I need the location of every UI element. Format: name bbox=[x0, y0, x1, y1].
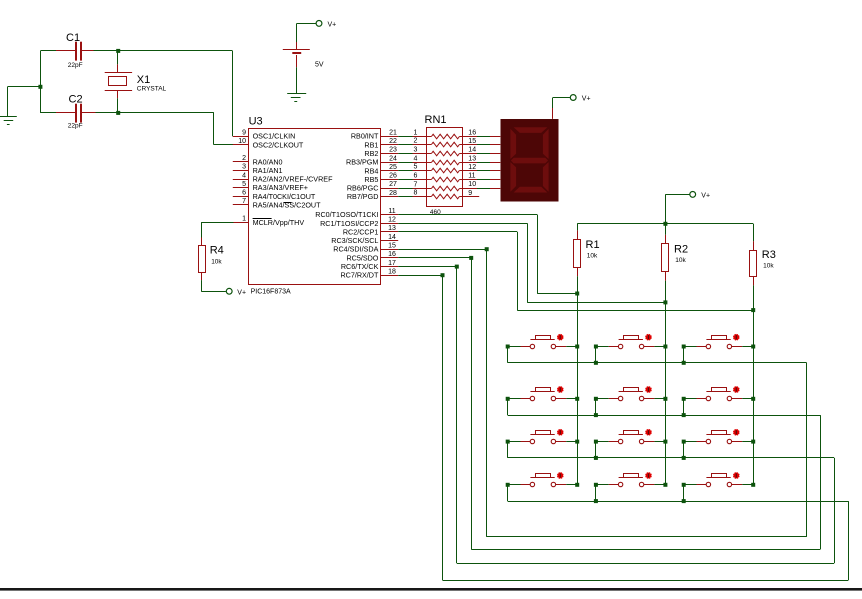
wire button row2 col2 right bbox=[654, 398, 665, 400]
resistor network RN1 value 460 bbox=[425, 114, 463, 216]
wire battery top bbox=[297, 23, 317, 42]
display lead pin 14 bbox=[490, 153, 500, 155]
capacitor C1 bbox=[56, 32, 94, 69]
pin 26 RB5 bbox=[364, 173, 398, 184]
svg-text:V+: V+ bbox=[237, 289, 246, 296]
svg-text:RB3/PGM: RB3/PGM bbox=[346, 158, 378, 167]
wire RN1 pin 12 to display bbox=[477, 170, 490, 172]
push button row1 col1 bbox=[521, 334, 567, 349]
wire C1 to OSC1 bbox=[94, 50, 233, 52]
wire V+ rail bbox=[577, 223, 753, 225]
svg-text:R4: R4 bbox=[210, 245, 224, 257]
svg-text:14: 14 bbox=[468, 147, 476, 154]
wire RC0 to column 1 bbox=[398, 215, 577, 294]
battery BT1 5V bbox=[283, 42, 324, 69]
junction R3 bottom bbox=[751, 308, 755, 312]
pin 24 RB3/PGM bbox=[346, 155, 398, 166]
wire button row2 col1 right bbox=[566, 398, 577, 400]
wire RC5 run bbox=[398, 258, 820, 550]
svg-text:R2: R2 bbox=[674, 243, 688, 255]
svg-text:10k: 10k bbox=[675, 257, 686, 264]
wire R4 to V+ bbox=[201, 280, 226, 291]
wire C2 left lead bbox=[40, 112, 56, 114]
wire RC1 to column 2 bbox=[398, 223, 665, 302]
pin 22 RB1 bbox=[364, 138, 398, 149]
wire X1 top lead bbox=[117, 51, 119, 64]
wire button row4 col1 left bbox=[508, 485, 521, 502]
wire rail to R2 bbox=[665, 224, 667, 235]
op-amp U3 body (PIC16F873A) bbox=[249, 116, 381, 296]
wire pin 21 to RN1 pin 1 bbox=[398, 136, 412, 138]
pin 12 RC1/T1OSI/CCP2 bbox=[320, 217, 398, 228]
resistor R1 10k bbox=[574, 230, 600, 276]
junction row 1 col3 drop bbox=[682, 361, 686, 365]
svg-text:10: 10 bbox=[238, 138, 246, 145]
crystal X1 bbox=[105, 64, 167, 98]
svg-text:27: 27 bbox=[389, 181, 397, 188]
wire button row4 col3 left bbox=[684, 485, 697, 502]
svg-text:RC2/CCP1: RC2/CCP1 bbox=[343, 227, 379, 236]
svg-text:10k: 10k bbox=[211, 258, 222, 265]
wire pin 28 to RN1 pin 8 bbox=[398, 196, 412, 198]
junction button row2 col3 L bbox=[682, 397, 686, 401]
display lead pin 12 bbox=[490, 170, 500, 172]
junction button row2 col2 R bbox=[663, 397, 667, 401]
junction button row3 col2 L bbox=[594, 440, 598, 444]
wire button row1 col1 right bbox=[566, 346, 577, 348]
power terminal V+ (battery) bbox=[316, 21, 336, 29]
svg-text:8: 8 bbox=[414, 190, 418, 197]
svg-text:12: 12 bbox=[468, 164, 476, 171]
push button row4 col2 bbox=[609, 472, 655, 486]
pin 14 RC3/SCK/SCL bbox=[331, 234, 398, 245]
junction RC7 corner bbox=[441, 273, 445, 277]
svg-text:26: 26 bbox=[389, 173, 397, 180]
wire keypad row 4 bbox=[508, 501, 849, 503]
wire button row1 col3 left bbox=[684, 347, 697, 363]
pin 4 RA2/AN2/VREF-/CVREF bbox=[233, 172, 333, 183]
wire button row3 col2 right bbox=[654, 441, 665, 443]
RN1 element 1 zigzag bbox=[414, 130, 463, 139]
wire RN1 pin 11 to display bbox=[477, 179, 490, 181]
wire button row4 col2 right bbox=[654, 484, 665, 486]
wire button row3 col3 left bbox=[684, 442, 697, 458]
wire button row4 col2 left bbox=[596, 485, 609, 502]
power terminal V+ (R4) bbox=[226, 288, 246, 296]
svg-text:14: 14 bbox=[388, 234, 396, 241]
svg-text:12: 12 bbox=[388, 217, 396, 224]
wire button row3 col1 right bbox=[566, 441, 577, 443]
svg-text:RB1: RB1 bbox=[364, 140, 378, 149]
svg-text:6: 6 bbox=[414, 173, 418, 180]
pin 21 RB0/INT bbox=[351, 129, 398, 140]
push button row1 col2 bbox=[609, 334, 655, 349]
svg-text:1: 1 bbox=[242, 216, 246, 223]
wire button row1 col1 left bbox=[508, 347, 521, 363]
wire RC7 run bbox=[398, 275, 848, 580]
pin 25 RB4 bbox=[364, 164, 398, 175]
pin 5 RA3/AN3/VREF+ bbox=[233, 181, 308, 192]
pin 3 RA1/AN1 bbox=[233, 164, 283, 175]
wire R1 to column bbox=[577, 276, 579, 293]
junction RC5 corner bbox=[469, 256, 473, 260]
svg-text:2: 2 bbox=[242, 155, 246, 162]
svg-text:1: 1 bbox=[414, 130, 418, 137]
svg-text:13: 13 bbox=[388, 225, 396, 232]
wire keypad row 1 bbox=[508, 362, 807, 364]
svg-text:X1: X1 bbox=[137, 74, 150, 86]
junction row 4 col2 drop bbox=[594, 499, 598, 503]
pin 23 RB2 bbox=[364, 147, 398, 158]
junction button row1 col3 R bbox=[751, 345, 755, 349]
RN1 right stub pin 10 bbox=[463, 181, 477, 188]
wire C1-C2 left vertical bbox=[40, 51, 42, 113]
RN1 right stub pin 14 bbox=[463, 147, 477, 154]
junction C2/X1 bottom bbox=[116, 111, 120, 115]
junction button row4 col3 R bbox=[751, 483, 755, 487]
wire button row3 col2 left bbox=[596, 442, 609, 458]
wire battery to ground bbox=[296, 67, 298, 93]
junction row 4 col3 drop bbox=[682, 499, 686, 503]
svg-text:C1: C1 bbox=[66, 32, 80, 44]
svg-text:RC4/SDI/SDA: RC4/SDI/SDA bbox=[333, 245, 378, 254]
svg-text:CRYSTAL: CRYSTAL bbox=[137, 85, 167, 92]
wire MCLR to R4 bbox=[201, 222, 233, 237]
svg-text:5: 5 bbox=[242, 181, 246, 188]
RN1 right stub pin 16 bbox=[463, 129, 477, 136]
RN1 element 8 zigzag bbox=[414, 190, 463, 199]
junction row 2 col3 drop bbox=[682, 413, 686, 417]
RN1 left stub 6 bbox=[413, 179, 427, 181]
junction button row4 col3 L bbox=[682, 483, 686, 487]
svg-text:3: 3 bbox=[242, 164, 246, 171]
junction button row1 col2 R bbox=[663, 345, 667, 349]
junction ground/left vertical bbox=[38, 85, 42, 89]
RN1 left stub 5 bbox=[413, 170, 427, 172]
push button row1 col3 bbox=[697, 334, 743, 349]
svg-text:4: 4 bbox=[242, 172, 246, 179]
junction button row1 col1 L bbox=[506, 345, 510, 349]
wire keypad row 2 bbox=[508, 415, 821, 417]
pin 13 RC2/CCP1 bbox=[343, 225, 398, 236]
display lead pin 10 bbox=[490, 188, 500, 190]
junction button row1 col3 L bbox=[682, 345, 686, 349]
wire column 3 vertical bbox=[753, 310, 755, 485]
wire button row2 col2 left bbox=[596, 399, 609, 416]
pin 2 RA0/AN0 bbox=[233, 155, 283, 166]
pin 9 OSC1/CLKIN bbox=[233, 129, 296, 140]
wire button row2 col1 left bbox=[508, 399, 521, 416]
wire RC2 to column 3 bbox=[398, 232, 753, 311]
wire button row1 col2 right bbox=[654, 346, 665, 348]
pin 6 RA4/T0CKI/C1OUT bbox=[233, 190, 316, 201]
junction button row4 col2 R bbox=[663, 483, 667, 487]
wire column 2 vertical bbox=[665, 302, 667, 484]
svg-text:25: 25 bbox=[389, 164, 397, 171]
svg-text:18: 18 bbox=[388, 268, 396, 275]
push button row3 col1 bbox=[521, 429, 567, 443]
RN1 right stub pin 12 bbox=[463, 164, 477, 171]
ground bbox=[0, 87, 17, 125]
svg-text:6: 6 bbox=[242, 190, 246, 197]
wire button row2 col3 left bbox=[684, 399, 697, 416]
push button row3 col3 bbox=[697, 429, 743, 443]
RN1 left stub 3 bbox=[413, 153, 427, 155]
wire display V+ bbox=[553, 98, 571, 109]
wire pin 24 to RN1 pin 4 bbox=[398, 162, 412, 164]
svg-text:22: 22 bbox=[389, 138, 397, 145]
svg-text:23: 23 bbox=[389, 147, 397, 154]
wire button row4 col1 right bbox=[566, 484, 577, 486]
pin 16 RC5/SDO bbox=[346, 251, 398, 262]
svg-text:R1: R1 bbox=[586, 239, 600, 251]
wire keypad row 3 bbox=[508, 457, 834, 459]
svg-text:16: 16 bbox=[388, 251, 396, 258]
wire button row1 col2 left bbox=[596, 347, 609, 363]
RN1 left stub 2 bbox=[413, 144, 427, 146]
wire ground branch bbox=[8, 86, 41, 88]
junction row 1 col2 drop bbox=[594, 361, 598, 365]
junction RC6 corner bbox=[455, 265, 459, 269]
wire column 1 vertical bbox=[577, 294, 579, 485]
capacitor C2 bbox=[56, 94, 96, 130]
RN1 right stub pin 13 bbox=[463, 155, 477, 162]
wire RN1 pin 10 to display bbox=[477, 188, 490, 190]
push button row2 col3 bbox=[697, 386, 743, 400]
pin 11 RC0/T1OSO/T1CKI bbox=[315, 208, 398, 219]
junction button row2 col3 R bbox=[751, 397, 755, 401]
svg-text:3: 3 bbox=[414, 147, 418, 154]
wire rail to R1 bbox=[577, 224, 579, 231]
RN1 element 5 zigzag bbox=[414, 164, 463, 173]
push button row2 col1 bbox=[521, 386, 567, 400]
svg-text:11: 11 bbox=[468, 173, 475, 180]
svg-text:10k: 10k bbox=[763, 263, 774, 270]
RN1 left stub 4 bbox=[413, 162, 427, 164]
push button row3 col2 bbox=[609, 429, 655, 443]
svg-text:10: 10 bbox=[468, 181, 476, 188]
svg-text:15: 15 bbox=[468, 138, 476, 145]
svg-text:22pF: 22pF bbox=[68, 122, 83, 129]
svg-text:R3: R3 bbox=[762, 249, 776, 261]
wire RN1 pin 15 to display bbox=[477, 144, 490, 146]
svg-text:9: 9 bbox=[468, 190, 472, 197]
svg-text:13: 13 bbox=[468, 155, 476, 162]
power terminal V+ (keypad) bbox=[690, 192, 710, 200]
svg-text:C2: C2 bbox=[69, 94, 83, 106]
junction row 3 col2 drop bbox=[594, 456, 598, 460]
wire X1 bottom lead bbox=[117, 98, 119, 113]
junction button row4 col1 R bbox=[575, 483, 579, 487]
push button row4 col3 bbox=[697, 472, 743, 486]
wire R3 to column bbox=[753, 285, 755, 310]
svg-text:21: 21 bbox=[389, 129, 397, 136]
wire RC6 run bbox=[398, 267, 834, 564]
RN1 element 3 zigzag bbox=[414, 147, 463, 156]
RN1 element 4 zigzag bbox=[414, 156, 463, 165]
pin 18 RC7/RX/DT bbox=[340, 268, 398, 279]
sheet border bbox=[0, 588, 862, 591]
wire V+ to rail bbox=[665, 194, 689, 223]
pin 10 OSC2/CLKOUT bbox=[233, 138, 304, 149]
wire rail to R3 bbox=[753, 224, 755, 241]
svg-text:U3: U3 bbox=[249, 116, 263, 128]
RN1 element 6 zigzag bbox=[414, 173, 463, 182]
svg-text:V+: V+ bbox=[701, 192, 710, 199]
display lead pin 16 bbox=[490, 136, 500, 138]
RN1 right stub pin 9 bbox=[463, 190, 479, 197]
junction row 3 col3 drop bbox=[682, 456, 686, 460]
junction button row1 col2 L bbox=[594, 345, 598, 349]
resistor R2 10k bbox=[662, 235, 689, 281]
svg-text:10k: 10k bbox=[587, 253, 598, 260]
display anode lead bbox=[552, 108, 554, 119]
svg-text:5: 5 bbox=[414, 164, 418, 171]
wire to pin 9 bbox=[232, 51, 234, 136]
wire button row1 col3 right bbox=[742, 346, 753, 348]
junction button row3 col2 R bbox=[663, 440, 667, 444]
svg-text:2: 2 bbox=[414, 138, 418, 145]
pin 15 RC4/SDI/SDA bbox=[333, 242, 398, 253]
svg-text:RB7/PGD: RB7/PGD bbox=[347, 192, 379, 201]
junction button row1 col1 R bbox=[575, 345, 579, 349]
pin 17 RC6/TX/CK bbox=[341, 260, 398, 271]
wire pin 27 to RN1 pin 7 bbox=[398, 188, 412, 190]
wire RN1 pin 13 to display bbox=[477, 162, 490, 164]
ground (battery) bbox=[287, 94, 306, 102]
svg-text:24: 24 bbox=[389, 155, 397, 162]
display lead pin 13 bbox=[490, 162, 500, 164]
resistor R4 10k bbox=[199, 238, 224, 281]
svg-text:RN1: RN1 bbox=[425, 114, 447, 126]
svg-text:4: 4 bbox=[414, 156, 418, 163]
wire R2 to column bbox=[665, 281, 667, 303]
junction button row4 col2 L bbox=[594, 483, 598, 487]
svg-text:15: 15 bbox=[388, 242, 396, 249]
display lead pin 11 bbox=[490, 179, 500, 181]
junction R1 bottom bbox=[575, 292, 579, 296]
RN1 left stub 1 bbox=[413, 136, 427, 138]
pin 27 RB6/PGC bbox=[347, 181, 398, 192]
pin 7 RA5/AN4/SS/C2OUT bbox=[233, 198, 321, 209]
junction button row3 col1 R bbox=[575, 440, 579, 444]
RN1 right stub pin 15 bbox=[463, 138, 477, 145]
pin 28 RB7/PGD bbox=[347, 190, 398, 201]
wire button row3 col3 right bbox=[742, 441, 753, 443]
junction button row3 col3 R bbox=[751, 440, 755, 444]
junction button row4 col1 L bbox=[506, 483, 510, 487]
7-segment display bbox=[501, 119, 559, 202]
wire RN1 pin 16 to display bbox=[477, 136, 490, 138]
wire button row4 col3 right bbox=[742, 484, 753, 486]
junction button row2 col1 L bbox=[506, 397, 510, 401]
junction button row3 col1 L bbox=[506, 440, 510, 444]
power terminal V+ (display) bbox=[570, 95, 590, 103]
wire C1 left lead bbox=[40, 50, 56, 52]
junction button row2 col1 R bbox=[575, 397, 579, 401]
svg-text:16: 16 bbox=[468, 129, 476, 136]
RN1 right stub pin 11 bbox=[463, 173, 477, 180]
wire pin 23 to RN1 pin 3 bbox=[398, 153, 412, 155]
wire pin 22 to RN1 pin 2 bbox=[398, 144, 412, 146]
wire button row2 col3 right bbox=[742, 398, 753, 400]
wire button row3 col1 left bbox=[508, 442, 521, 458]
svg-text:V+: V+ bbox=[328, 22, 337, 29]
RN1 left stub 8 bbox=[413, 196, 427, 198]
svg-text:11: 11 bbox=[388, 208, 395, 215]
svg-text:RC0/T1OSO/T1CKI: RC0/T1OSO/T1CKI bbox=[315, 210, 378, 219]
RN1 element 7 zigzag bbox=[414, 182, 463, 191]
junction C1/X1 top bbox=[116, 49, 120, 53]
svg-text:MCLR/Vpp/THV: MCLR/Vpp/THV bbox=[253, 218, 305, 227]
wire C2 to OSC2 bbox=[96, 113, 234, 145]
svg-text:RB6/PGC: RB6/PGC bbox=[347, 184, 379, 193]
RN1 left stub 7 bbox=[413, 188, 427, 190]
wire RN1 pin 14 to display bbox=[477, 153, 490, 155]
push button row2 col2 bbox=[609, 386, 655, 400]
wire pin 25 to RN1 pin 5 bbox=[398, 170, 412, 172]
svg-text:PIC16F873A: PIC16F873A bbox=[251, 288, 291, 295]
junction rail/R2 bbox=[663, 222, 667, 226]
svg-text:7: 7 bbox=[414, 182, 418, 189]
RN1 element 2 zigzag bbox=[414, 138, 463, 147]
svg-text:V+: V+ bbox=[582, 96, 591, 103]
push button row4 col1 bbox=[521, 472, 567, 486]
display lead pin 15 bbox=[490, 144, 500, 146]
resistor R3 10k bbox=[750, 241, 776, 285]
svg-text:5V: 5V bbox=[315, 62, 324, 69]
svg-text:RC7/RX/DT: RC7/RX/DT bbox=[340, 271, 379, 280]
junction button row2 col2 L bbox=[594, 397, 598, 401]
svg-text:RC5/SDO: RC5/SDO bbox=[346, 253, 378, 262]
svg-text:9: 9 bbox=[242, 129, 246, 136]
svg-text:22pF: 22pF bbox=[68, 62, 83, 69]
pin 1 MCLR/Vpp/THV bbox=[233, 216, 305, 227]
svg-text:OSC2/CLKOUT: OSC2/CLKOUT bbox=[253, 140, 304, 149]
junction RC4 corner bbox=[485, 247, 489, 251]
wire pin 26 to RN1 pin 6 bbox=[398, 179, 412, 181]
svg-text:28: 28 bbox=[389, 190, 397, 197]
svg-text:7: 7 bbox=[242, 198, 246, 205]
junction row 2 col2 drop bbox=[594, 413, 598, 417]
svg-text:RA5/AN4/SS/C2OUT: RA5/AN4/SS/C2OUT bbox=[253, 200, 322, 209]
junction button row3 col3 L bbox=[682, 440, 686, 444]
junction R2 bottom bbox=[663, 300, 667, 304]
wire RC4 run bbox=[398, 249, 806, 537]
svg-text:17: 17 bbox=[388, 260, 396, 267]
